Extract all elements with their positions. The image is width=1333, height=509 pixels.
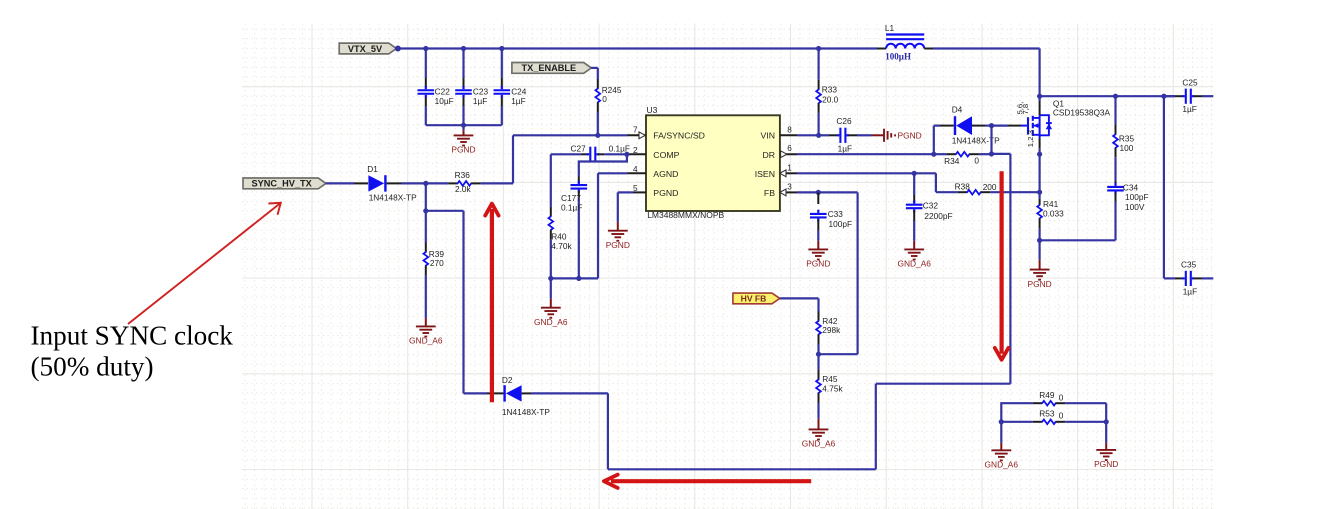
svg-text:PGND: PGND bbox=[451, 145, 475, 155]
svg-text:0.1µF: 0.1µF bbox=[609, 143, 630, 153]
wire SYNC to D1 bbox=[326, 182, 354, 184]
ground GND_A6 below R49 R53 bbox=[985, 422, 1019, 470]
svg-text:PGND: PGND bbox=[1027, 279, 1051, 289]
port TX_ENABLE bbox=[512, 63, 591, 74]
svg-text:0.1µF: 0.1µF bbox=[561, 203, 582, 213]
wire DR to R34 node bbox=[797, 152, 936, 157]
svg-text:C33: C33 bbox=[828, 209, 844, 219]
U3 pin numbers bbox=[633, 126, 792, 193]
svg-text:R49: R49 bbox=[1039, 390, 1055, 400]
U3 pin names bbox=[653, 131, 775, 199]
wire Q1 source bbox=[1037, 149, 1042, 199]
svg-text:100V: 100V bbox=[1125, 202, 1145, 212]
svg-text:4.75k: 4.75k bbox=[822, 384, 843, 394]
svg-text:C177: C177 bbox=[561, 193, 581, 203]
resistor R33 20.0 bbox=[816, 49, 838, 136]
svg-text:2.0k: 2.0k bbox=[455, 184, 472, 194]
resistor R53 0 bbox=[999, 409, 1109, 425]
svg-text:D4: D4 bbox=[952, 104, 963, 114]
ground PGND below C33 bbox=[806, 241, 830, 269]
svg-text:0: 0 bbox=[602, 94, 607, 104]
svg-text:TX_ENABLE: TX_ENABLE bbox=[521, 63, 576, 73]
svg-text:2200pF: 2200pF bbox=[924, 211, 952, 221]
svg-text:Input SYNC clock: Input SYNC clock bbox=[31, 320, 234, 350]
svg-text:8: 8 bbox=[787, 126, 792, 135]
svg-text:0.033: 0.033 bbox=[1043, 208, 1064, 218]
svg-text:GND_A6: GND_A6 bbox=[985, 460, 1019, 470]
wire ISEN bbox=[797, 171, 936, 193]
svg-text:200: 200 bbox=[983, 182, 997, 192]
wire gate node bbox=[992, 126, 1011, 154]
red arrow left (bottom return) bbox=[604, 475, 811, 488]
svg-text:C24: C24 bbox=[511, 86, 527, 96]
svg-text:100pF: 100pF bbox=[829, 219, 853, 229]
capacitor C27 0.1uF bbox=[551, 143, 630, 162]
svg-text:7,8: 7,8 bbox=[1021, 104, 1030, 115]
capacitor C33 100pF bbox=[810, 192, 852, 240]
svg-text:PGND: PGND bbox=[1094, 459, 1118, 469]
svg-text:C25: C25 bbox=[1182, 78, 1198, 88]
svg-text:CSD19538Q3A: CSD19538Q3A bbox=[1053, 107, 1111, 117]
capacitor C34 100pF 100V bbox=[1107, 180, 1148, 240]
svg-text:1µF: 1µF bbox=[473, 96, 487, 106]
capacitor C23 1uF bbox=[455, 49, 488, 126]
capacitor C22 10uF bbox=[418, 49, 454, 126]
ground GND_A6 below C32 bbox=[897, 241, 931, 269]
svg-text:100µH: 100µH bbox=[885, 52, 911, 62]
node D4 anode junction bbox=[985, 123, 994, 154]
inductor L1 100uH bbox=[885, 23, 924, 62]
svg-text:L1: L1 bbox=[885, 23, 895, 33]
svg-text:1µF: 1µF bbox=[1182, 104, 1196, 114]
node VTX junction C24 bbox=[499, 46, 504, 51]
ground PGND below C23 bbox=[451, 125, 475, 155]
svg-text:298k: 298k bbox=[822, 325, 841, 335]
wire stub to D2 branch bbox=[426, 211, 464, 394]
svg-text:100: 100 bbox=[1120, 143, 1134, 153]
svg-text:ISEN: ISEN bbox=[755, 169, 775, 179]
svg-text:1N4148X-TP: 1N4148X-TP bbox=[952, 136, 1000, 146]
svg-text:PGND: PGND bbox=[653, 188, 678, 198]
svg-text:100pF: 100pF bbox=[1125, 192, 1149, 202]
svg-text:D1: D1 bbox=[367, 164, 378, 174]
svg-text:AGND: AGND bbox=[653, 169, 678, 179]
capacitor C26 1uF bbox=[819, 116, 872, 153]
wire D4 left branch bbox=[934, 126, 940, 155]
wire D1 to R36 bbox=[402, 181, 449, 186]
red pointer arrow to SYNC port bbox=[128, 203, 281, 324]
svg-text:1µF: 1µF bbox=[838, 144, 852, 154]
svg-text:3: 3 bbox=[787, 183, 792, 192]
diode D4 1N4148X-TP bbox=[940, 104, 1000, 145]
port SYNC_HV_TX bbox=[243, 178, 326, 189]
svg-text:7: 7 bbox=[633, 126, 638, 135]
port VTX_5V bbox=[339, 43, 396, 54]
wire TX_ENABLE to R245 bbox=[591, 68, 598, 79]
wire COMP loop bbox=[579, 154, 627, 176]
svg-text:GND_A6: GND_A6 bbox=[409, 336, 443, 346]
annotation Input SYNC clock bbox=[31, 320, 234, 381]
svg-text:U3: U3 bbox=[647, 105, 658, 115]
svg-text:PGND: PGND bbox=[806, 259, 830, 269]
wire VOUT rail bbox=[1040, 94, 1175, 99]
svg-text:1: 1 bbox=[787, 164, 792, 173]
wire R53 right bbox=[1105, 403, 1107, 422]
resistor R245 0 bbox=[595, 79, 621, 135]
svg-text:C23: C23 bbox=[473, 86, 489, 96]
wire R49 left bbox=[1001, 403, 1031, 422]
wire C35 branch bbox=[1163, 96, 1165, 278]
ground PGND below R41 bbox=[1027, 260, 1051, 289]
svg-text:4.70k: 4.70k bbox=[551, 241, 572, 251]
wire pin8 VIN bbox=[797, 133, 821, 138]
svg-text:C34: C34 bbox=[1123, 183, 1139, 193]
node VTX junction C22 bbox=[423, 46, 428, 51]
wire VTX_5V rail bbox=[395, 46, 877, 52]
svg-text:0: 0 bbox=[1059, 392, 1064, 402]
node FB divider junction bbox=[816, 352, 858, 357]
resistor R38 200 bbox=[936, 182, 1040, 195]
svg-text:20.0: 20.0 bbox=[822, 94, 839, 104]
capacitor C25 1uF bbox=[1164, 78, 1213, 114]
wire cap bottom bus bbox=[426, 123, 502, 128]
wire HV FB to R42 bbox=[780, 298, 819, 311]
svg-text:C32: C32 bbox=[923, 200, 939, 210]
resistor R49 0 bbox=[1031, 390, 1106, 405]
svg-text:1,2,3: 1,2,3 bbox=[1026, 130, 1035, 147]
svg-text:GND_A6: GND_A6 bbox=[897, 259, 931, 269]
svg-text:0: 0 bbox=[974, 155, 979, 165]
resistor R35 100 bbox=[1113, 96, 1134, 180]
svg-text:C26: C26 bbox=[836, 116, 852, 126]
svg-text:R38: R38 bbox=[955, 182, 971, 192]
resistor R39 270 bbox=[423, 243, 444, 318]
svg-text:R53: R53 bbox=[1039, 409, 1055, 419]
svg-text:FA/SYNC/SD: FA/SYNC/SD bbox=[653, 131, 705, 141]
resistor R40 4.70k bbox=[548, 154, 572, 278]
ground PGND sideways at C26 bbox=[872, 129, 922, 142]
svg-text:DR: DR bbox=[762, 150, 775, 160]
node R245/pin7 junction bbox=[595, 133, 600, 138]
wire L1 left pin bbox=[877, 48, 886, 50]
resistor R41 0.033 bbox=[1037, 199, 1064, 240]
resistor R34 0 bbox=[934, 151, 994, 166]
svg-text:C27: C27 bbox=[571, 143, 587, 153]
wire L1 right to Q1 drain bbox=[924, 49, 1042, 102]
ground GND_A6 below R40 bbox=[534, 278, 568, 327]
svg-text:1µF: 1µF bbox=[1183, 286, 1197, 296]
svg-text:1µF: 1µF bbox=[511, 96, 525, 106]
resistor R42 298k bbox=[816, 312, 841, 355]
ground PGND pin5 bbox=[606, 222, 630, 250]
ground GND_A6 below R39 bbox=[409, 318, 443, 346]
port HV FB bbox=[733, 293, 780, 304]
wire D2 to bottom loop bbox=[531, 154, 1010, 469]
svg-text:R33: R33 bbox=[822, 85, 838, 95]
svg-text:1N4148X-TP: 1N4148X-TP bbox=[369, 192, 417, 202]
capacitor C32 2200pF bbox=[906, 173, 953, 241]
wire PGND pin5 bbox=[618, 192, 633, 222]
wire C34 bottom to R41 bbox=[1040, 239, 1116, 241]
svg-text:PGND: PGND bbox=[898, 131, 922, 141]
capacitor C177 0.1uF bbox=[561, 177, 587, 279]
resistor R36 2.0k bbox=[448, 170, 480, 194]
svg-text:R36: R36 bbox=[455, 170, 471, 180]
svg-text:LM3488MMX/NOPB: LM3488MMX/NOPB bbox=[647, 210, 724, 220]
diode D2 1N4148X-TP bbox=[487, 375, 550, 417]
resistor R45 4.75k bbox=[816, 354, 843, 419]
svg-text:PGND: PGND bbox=[606, 240, 630, 250]
svg-text:0: 0 bbox=[1059, 411, 1064, 421]
transistor Q1 CSD19538Q3A bbox=[1008, 99, 1111, 149]
svg-text:HV FB: HV FB bbox=[741, 294, 767, 304]
node R41 bottom junction bbox=[1037, 238, 1042, 260]
op-amp U3 LM3488MMX/NOPB body bbox=[646, 105, 780, 220]
svg-text:D2: D2 bbox=[502, 375, 513, 385]
svg-text:10µF: 10µF bbox=[435, 96, 454, 106]
svg-text:GND_A6: GND_A6 bbox=[534, 317, 568, 327]
svg-text:(50% duty): (50% duty) bbox=[31, 351, 154, 381]
wire AGND bus bbox=[548, 173, 627, 281]
ground PGND below R49 R53 bbox=[1094, 422, 1118, 469]
node VTX junction C23 bbox=[461, 46, 466, 51]
capacitor C35 1uF bbox=[1164, 259, 1213, 296]
node VTX junction R33 bbox=[816, 46, 821, 51]
wire to D2 bbox=[464, 392, 488, 394]
svg-text:VIN: VIN bbox=[761, 131, 775, 141]
diode D1 1N4148X-TP bbox=[354, 164, 417, 202]
wire R36 to pin7 bbox=[481, 135, 628, 183]
svg-text:VTX_5V: VTX_5V bbox=[348, 44, 383, 54]
svg-text:270: 270 bbox=[430, 258, 444, 268]
wire junction down to R39 bbox=[423, 183, 428, 242]
wire FB bbox=[797, 190, 858, 354]
ground GND_A6 below R45 bbox=[802, 419, 836, 449]
red arrow up (sync path) bbox=[485, 204, 498, 403]
node COMP junction bbox=[624, 152, 629, 157]
U3 pin stubs bbox=[628, 132, 798, 196]
svg-text:C22: C22 bbox=[435, 86, 451, 96]
svg-text:FB: FB bbox=[764, 188, 775, 198]
svg-text:R34: R34 bbox=[944, 156, 960, 166]
svg-text:COMP: COMP bbox=[653, 150, 679, 160]
capacitor C24 1uF bbox=[494, 49, 527, 126]
svg-text:6: 6 bbox=[787, 144, 792, 153]
svg-text:SYNC_HV_TX: SYNC_HV_TX bbox=[252, 179, 313, 189]
svg-text:GND_A6: GND_A6 bbox=[802, 439, 836, 449]
svg-text:C35: C35 bbox=[1181, 259, 1197, 269]
svg-text:1N4148X-TP: 1N4148X-TP bbox=[502, 407, 550, 417]
red arrow down (gate drive) bbox=[995, 171, 1009, 360]
